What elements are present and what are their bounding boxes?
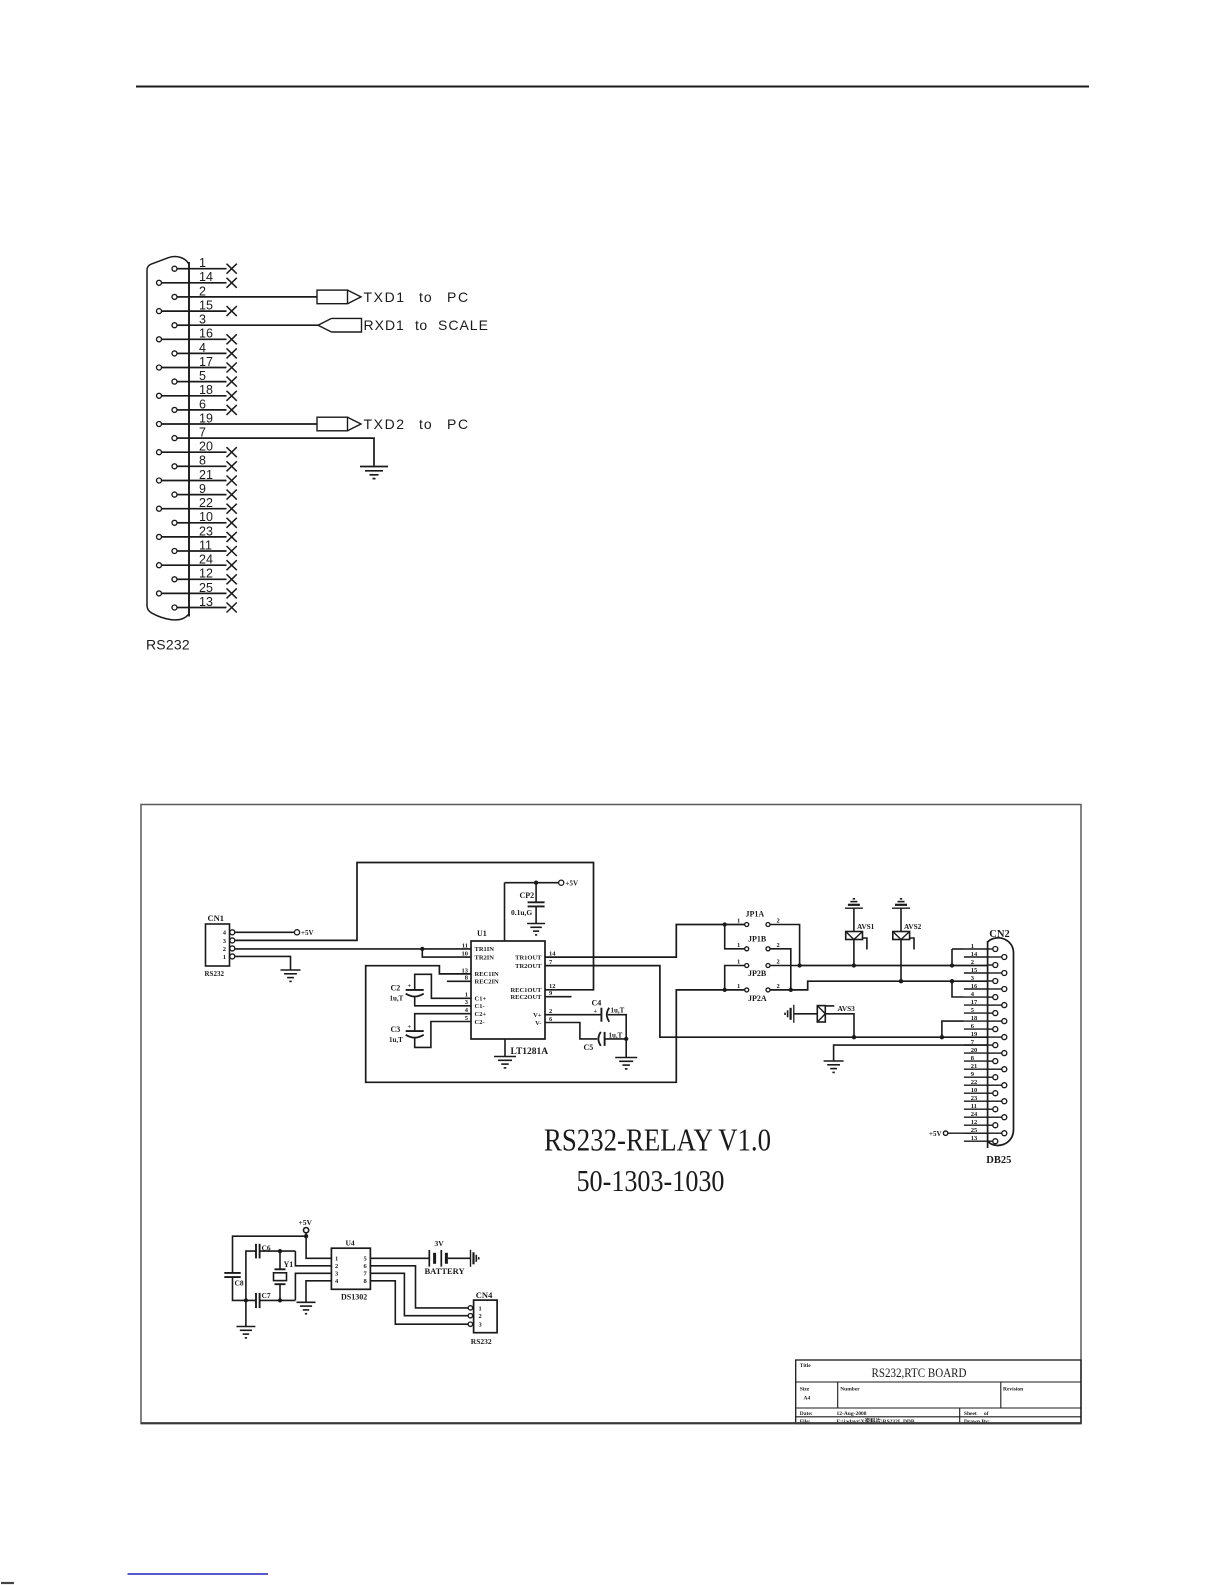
wire U4.4 to ground xyxy=(306,1281,331,1303)
svg-text:Sheet: Sheet xyxy=(964,1411,977,1417)
wire pin 3 to RXD1 port xyxy=(189,324,318,326)
svg-text:AVS3: AVS3 xyxy=(838,1004,856,1013)
wire pin 23 stub xyxy=(189,536,227,538)
svg-text:REC2IN: REC2IN xyxy=(475,979,500,986)
port TXD2 output arrow xyxy=(317,417,348,431)
svg-text:RS232,RTC BOARD: RS232,RTC BOARD xyxy=(872,1366,967,1380)
capacitor C6 xyxy=(255,1244,257,1259)
CN2 pin 12 circle xyxy=(993,1123,998,1128)
CN2 pin 25 circle xyxy=(1002,1131,1007,1136)
CN1 pin 2 xyxy=(230,946,235,951)
svg-text:50-1303-1030: 50-1303-1030 xyxy=(577,1163,725,1198)
svg-text:AVS2: AVS2 xyxy=(904,922,922,931)
wire pin 4 stub xyxy=(189,352,227,354)
capacitor C2 xyxy=(406,989,424,991)
wire node A to U4.2 xyxy=(295,1251,331,1266)
svg-text:+: + xyxy=(594,1008,598,1015)
svg-text:of: of xyxy=(984,1411,989,1417)
wire C2 bottom to C1- xyxy=(415,997,471,1006)
wire +5V to U4.1 xyxy=(306,1233,331,1259)
wire pin 2 to TXD1 port xyxy=(189,296,317,298)
RS232 pin 16 circle and lead xyxy=(157,337,162,342)
svg-text:Title: Title xyxy=(800,1363,811,1369)
CN2 pin 10 circle xyxy=(993,1091,998,1096)
frame bottom emphasis xyxy=(141,1422,1081,1424)
svg-text:11: 11 xyxy=(462,942,468,949)
CN2 pin 21 stub xyxy=(964,1068,988,1070)
CN2 pin 18 circle xyxy=(1002,1019,1007,1024)
wire JP1B.2 down xyxy=(770,949,791,990)
ground (U4.4) xyxy=(297,1301,316,1303)
CN2 pin 23 stub xyxy=(964,1100,988,1102)
port TXD1 output arrow xyxy=(317,290,348,304)
no-connect X pin 15 xyxy=(227,306,237,316)
svg-text:to: to xyxy=(419,289,433,305)
wire AVS1 to bus1 xyxy=(853,940,855,966)
svg-text:LT1281A: LT1281A xyxy=(511,1047,549,1057)
wire C8 to ground node xyxy=(233,1277,257,1300)
svg-text:3: 3 xyxy=(335,1271,339,1278)
CN2 pin 5 stub xyxy=(964,1012,988,1014)
chassis earth (AVS2 top) xyxy=(892,907,910,909)
CN2 pin 10 stub xyxy=(964,1092,988,1094)
CN2 pin 15 stub xyxy=(964,972,988,974)
svg-text:Number: Number xyxy=(840,1387,860,1393)
wire pin 7 to ground xyxy=(189,438,374,466)
CN2 pin 21 circle xyxy=(1002,1067,1007,1072)
connector CN4 body xyxy=(474,1300,498,1333)
ground (CP2) xyxy=(527,923,545,925)
wire branch to TR2IN xyxy=(422,949,471,957)
svg-text:BATTERY: BATTERY xyxy=(425,1266,465,1276)
wire CN2.7 to ground xyxy=(834,1045,988,1061)
CN2 pin 14 stub xyxy=(964,956,988,958)
chassis earth (AVS3 left) xyxy=(793,1005,795,1023)
no-connect X pin 23 xyxy=(227,532,237,542)
CN2 pin 7 circle xyxy=(993,1043,998,1048)
capacitor C5 xyxy=(598,1032,600,1046)
no-connect X pin 10 xyxy=(227,518,237,528)
svg-text:to: to xyxy=(415,317,428,333)
wire pin 8 stub xyxy=(189,465,227,467)
svg-text:RXD1: RXD1 xyxy=(364,317,405,333)
svg-text:REC1IN: REC1IN xyxy=(475,971,500,978)
wire to JP1B.1 xyxy=(725,925,745,949)
CN2 pin 22 stub xyxy=(964,1084,988,1086)
capacitor C4 xyxy=(600,1008,602,1022)
chassis earth (battery) xyxy=(470,1250,472,1267)
wire U1 top to +5V rail xyxy=(504,883,506,941)
CN2 pin 22 circle xyxy=(1002,1083,1007,1088)
svg-text:C2+: C2+ xyxy=(475,1011,487,1018)
CN2 pin 24 stub xyxy=(964,1116,988,1118)
wire C4 to ground rail xyxy=(608,1015,626,1058)
svg-text:TR1OUT: TR1OUT xyxy=(515,954,542,961)
CN2 pin 12 stub xyxy=(964,1124,988,1126)
RS232 pin 4 circle and lead xyxy=(172,351,177,356)
CN1 pin 3 xyxy=(230,938,235,943)
CN2 pin 16 circle xyxy=(1002,987,1007,992)
svg-text:C3: C3 xyxy=(391,1025,401,1034)
svg-text:C5: C5 xyxy=(584,1043,594,1052)
svg-text:RS232: RS232 xyxy=(471,1337,492,1346)
RS232 pin 18 circle and lead xyxy=(157,393,162,398)
wire pin 1 stub xyxy=(189,268,227,270)
CN1 pin 1 xyxy=(230,954,235,959)
wire CN2.1 lead xyxy=(952,948,964,950)
wire C3 bottom to C2- xyxy=(415,1022,471,1048)
wire +5V to C8 xyxy=(233,1236,307,1273)
wire +5V rail xyxy=(505,882,559,884)
wire C7 right to node B xyxy=(260,1299,296,1301)
svg-text:PC: PC xyxy=(447,416,470,432)
chassis earth (AVS1 top) xyxy=(845,907,863,909)
CN2 pin 11 circle xyxy=(993,1107,998,1112)
svg-text:A4: A4 xyxy=(804,1396,811,1402)
CN2 pin 8 stub xyxy=(964,1060,988,1062)
CN2 pin 1 circle xyxy=(993,947,998,952)
top horizontal rule xyxy=(136,86,1089,88)
junction dot CP2 xyxy=(534,881,538,885)
svg-text:2: 2 xyxy=(335,1263,338,1270)
svg-text:1: 1 xyxy=(737,983,740,990)
svg-text:+: + xyxy=(408,982,412,989)
svg-text:U1: U1 xyxy=(477,929,487,938)
wire pin 11 stub xyxy=(189,550,227,552)
wire to JP2B.1 xyxy=(725,966,745,990)
svg-text:TXD2: TXD2 xyxy=(364,416,406,432)
wire V+ to C4 xyxy=(545,1014,601,1016)
svg-text:TR2IN: TR2IN xyxy=(475,954,495,961)
junction dot CN2.3 xyxy=(950,979,954,983)
wire node B to U4.3 xyxy=(295,1273,331,1300)
junction dot C5/gnd xyxy=(624,1037,628,1041)
junction dot CN2.1/2 xyxy=(950,963,954,967)
svg-text:C2-: C2- xyxy=(475,1019,485,1026)
svg-text:1u,T: 1u,T xyxy=(390,994,404,1002)
jumper JP1B pin 1 xyxy=(745,947,749,951)
svg-text:+: + xyxy=(408,1024,412,1031)
surge absorber AVS2 xyxy=(900,908,902,931)
svg-text:2: 2 xyxy=(777,959,780,966)
op-amp U1 LT1281A body xyxy=(471,941,545,1039)
junction dot +5V node xyxy=(304,1234,308,1238)
junction dot AVS2/bus2 xyxy=(899,979,903,983)
no-connect X pin 18 xyxy=(227,391,237,401)
junction dot AVS3/bus3 xyxy=(852,1035,856,1039)
svg-text:19: 19 xyxy=(971,1031,978,1038)
svg-text:1: 1 xyxy=(737,942,740,949)
svg-text:2: 2 xyxy=(777,942,780,949)
RS232 pin 20 circle and lead xyxy=(157,450,162,455)
wire pin 12 stub xyxy=(189,578,227,580)
CN2 pin 20 stub xyxy=(964,1052,988,1054)
RS232 pin 5 circle and lead xyxy=(172,379,177,384)
CN2 pin 15 circle xyxy=(1002,971,1007,976)
svg-text:AVS1: AVS1 xyxy=(857,922,875,931)
jumper JP1B pin 2 xyxy=(766,947,770,951)
surge absorber AVS3 xyxy=(817,1006,825,1022)
svg-text:8: 8 xyxy=(364,1278,368,1285)
svg-text:U4: U4 xyxy=(346,1239,355,1248)
connector CN2 DB25 body xyxy=(988,938,1014,1146)
ground (RS232 pin 7) xyxy=(360,466,388,468)
svg-text:12-Aug-2008: 12-Aug-2008 xyxy=(837,1411,867,1417)
wire pin 21 stub xyxy=(189,480,227,482)
wire CN2.3 to CN2.4 xyxy=(952,981,964,997)
RS232 pin 13 circle and lead xyxy=(172,605,177,610)
capacitor C3 xyxy=(406,1030,424,1032)
no-connect X pin 5 xyxy=(227,377,237,387)
svg-text:SCALE: SCALE xyxy=(438,317,489,333)
no-connect X pin 6 xyxy=(227,405,237,415)
svg-text:1: 1 xyxy=(737,959,740,966)
jumper JP1A pin 1 xyxy=(745,923,749,927)
no-connect X pin 16 xyxy=(227,334,237,344)
wire CN1.2 to TR1IN xyxy=(235,948,472,950)
CN2 pin 14 circle xyxy=(1002,955,1007,960)
wire pin 9 stub xyxy=(189,494,227,496)
connector CN2 spine xyxy=(987,941,989,1148)
RS232 pin 9 circle and lead xyxy=(172,492,177,497)
CN2 pin 9 circle xyxy=(993,1075,998,1080)
svg-text:1: 1 xyxy=(335,1256,338,1263)
svg-text:DB25: DB25 xyxy=(986,1155,1011,1166)
CN2 pin 6 circle xyxy=(993,1027,998,1032)
wire AVS2 to bus2 xyxy=(900,940,902,982)
connector CN1 body xyxy=(206,924,230,966)
svg-text:5: 5 xyxy=(364,1256,368,1263)
svg-text:+5V: +5V xyxy=(566,880,579,888)
CN2 pin 8 circle xyxy=(993,1059,998,1064)
svg-text:6: 6 xyxy=(364,1263,368,1270)
svg-text:to: to xyxy=(419,416,433,432)
svg-text:Date:: Date: xyxy=(800,1411,813,1417)
CN2 pin 5 circle xyxy=(993,1011,998,1016)
junction dot JP2A.1 xyxy=(723,988,727,992)
svg-text:C1+: C1+ xyxy=(475,996,487,1003)
junction dot TR1IN/TR2IN xyxy=(420,947,424,951)
wire TR2OUT bus xyxy=(545,966,988,1038)
svg-text:JP2A: JP2A xyxy=(748,994,767,1003)
wire pin 17 stub xyxy=(189,367,227,369)
CN2 pin 19 circle xyxy=(1002,1035,1007,1040)
RS232 pin 17 circle and lead xyxy=(157,365,162,370)
junction dot bus1 start xyxy=(797,963,801,967)
CN2 pin 3 circle xyxy=(993,979,998,984)
svg-text:3: 3 xyxy=(479,1322,483,1329)
svg-text:CP2: CP2 xyxy=(520,891,535,900)
svg-text:1: 1 xyxy=(737,918,740,925)
no-connect X pin 4 xyxy=(227,348,237,358)
svg-text:JP2B: JP2B xyxy=(748,969,767,978)
svg-text:TXD1: TXD1 xyxy=(364,289,406,305)
wire C1+ loop xyxy=(415,974,471,998)
RS232 pin 10 circle and lead xyxy=(172,520,177,525)
wire bus1 (TXD line) to CN2 pin 2 xyxy=(800,965,988,967)
svg-text:REC2OUT: REC2OUT xyxy=(510,994,542,1001)
svg-text:+5V: +5V xyxy=(299,1218,313,1227)
jumper JP2B pin 2 xyxy=(766,964,770,968)
svg-text:2: 2 xyxy=(971,959,974,966)
svg-text:V-: V- xyxy=(535,1020,541,1027)
CN2 pin 18 stub xyxy=(964,1020,988,1022)
title block outline xyxy=(796,1360,1081,1424)
jumper JP2B pin 1 xyxy=(745,964,749,968)
CN2 pin 4 stub xyxy=(964,996,988,998)
chip U4 DS1302 body xyxy=(331,1248,370,1289)
no-connect X pin 24 xyxy=(227,560,237,570)
jumper JP2A pin 2 xyxy=(766,988,770,992)
RS232 pin 6 circle and lead xyxy=(172,407,177,412)
CN2 pin 1 stub xyxy=(964,948,988,950)
wire pin 16 stub xyxy=(189,338,227,340)
schematic sheet border frame xyxy=(141,805,1081,1424)
connector RS232 spine xyxy=(188,262,190,617)
wire C5 to junction xyxy=(605,1038,627,1040)
CN2 pin 17 circle xyxy=(1002,1003,1007,1008)
RS232 pin 11 circle and lead xyxy=(172,549,177,554)
svg-text:CN1: CN1 xyxy=(208,913,225,923)
svg-text:C4: C4 xyxy=(592,999,602,1008)
capacitor C7 xyxy=(255,1293,257,1308)
junction dot AVS1/bus1 xyxy=(852,963,856,967)
no-connect X pin 14 xyxy=(227,278,237,288)
CN2 pin 24 circle xyxy=(1002,1115,1007,1120)
CN2 pin 25 stub xyxy=(964,1132,988,1134)
RS232 pin 21 circle and lead xyxy=(157,478,162,483)
svg-text:Revision: Revision xyxy=(1003,1387,1023,1393)
RS232 pin 3 circle and lead xyxy=(172,323,177,328)
page footer mark xyxy=(1,1582,14,1584)
CN2 pin 4 circle xyxy=(993,995,998,1000)
svg-text:RS232: RS232 xyxy=(146,636,190,652)
wire C6 right to node A xyxy=(260,1250,296,1252)
CN2 pin 20 circle xyxy=(1002,1051,1007,1056)
junction dot node A xyxy=(278,1249,282,1253)
svg-text:1u,T: 1u,T xyxy=(611,1007,625,1015)
no-connect X pin 13 xyxy=(227,603,237,613)
svg-text:TR1IN: TR1IN xyxy=(475,946,495,953)
svg-text:+5V: +5V xyxy=(301,929,314,937)
svg-text:1u,T: 1u,T xyxy=(389,1036,403,1044)
ground (CN2.7) xyxy=(824,1060,844,1062)
RS232 pin 24 circle and lead xyxy=(157,563,162,568)
port RXD1 input arrow xyxy=(318,318,332,332)
CN2 pin 2 circle xyxy=(993,963,998,968)
svg-text:PC: PC xyxy=(447,289,470,305)
svg-text:C8: C8 xyxy=(235,1278,244,1287)
wire pin 25 stub xyxy=(189,592,227,594)
capacitor CP2 xyxy=(535,883,537,903)
no-connect X pin 11 xyxy=(227,546,237,556)
svg-text:0.1u,G: 0.1u,G xyxy=(511,908,532,917)
svg-text:DS1302: DS1302 xyxy=(341,1292,367,1301)
jumper JP1A pin 2 xyxy=(766,923,770,927)
svg-text:2: 2 xyxy=(479,1313,482,1320)
wire AVS3 to bus3 xyxy=(825,1014,854,1037)
CN2 pin 17 stub xyxy=(964,1004,988,1006)
no-connect X pin 8 xyxy=(227,461,237,471)
CN2 pin 13 circle xyxy=(993,1139,998,1144)
wire pin 10 stub xyxy=(189,522,227,524)
no-connect X pin 1 xyxy=(227,264,237,274)
svg-text:RS232-RELAY V1.0: RS232-RELAY V1.0 xyxy=(544,1122,771,1158)
no-connect X pin 12 xyxy=(227,574,237,584)
svg-text:TR2OUT: TR2OUT xyxy=(515,963,542,970)
wire CN1.1 to ground xyxy=(235,956,291,970)
svg-text:Size: Size xyxy=(800,1387,810,1393)
svg-text:3V: 3V xyxy=(435,1239,445,1248)
svg-text:2: 2 xyxy=(777,918,780,925)
wire pin 22 stub xyxy=(189,508,227,510)
wire pin 13 stub xyxy=(189,607,227,609)
CN2 pin 11 stub xyxy=(964,1108,988,1110)
svg-text:4: 4 xyxy=(335,1278,339,1285)
RS232 pin 7 circle and lead xyxy=(172,436,177,441)
wire CN1.4 to +5V xyxy=(235,931,295,933)
svg-text:3: 3 xyxy=(223,938,227,945)
CN2 pin 23 circle xyxy=(1002,1099,1007,1104)
connector RS232 DB25 body xyxy=(147,257,189,620)
svg-text:V+: V+ xyxy=(533,1012,542,1019)
junction dot CN2 18/19 xyxy=(940,1035,944,1039)
wire CN2.1 to bus1 xyxy=(951,949,953,966)
RS232 pin 2 circle and lead xyxy=(172,294,177,299)
U1 pin 8 REC2IN xyxy=(447,980,471,982)
hyperlink underline (blue) xyxy=(128,1573,269,1575)
ground (CN1) xyxy=(281,969,301,971)
wire U4.6 to CN4.1 xyxy=(370,1266,468,1308)
wire pin 6 stub xyxy=(189,409,227,411)
wire pin 24 stub xyxy=(189,564,227,566)
CN2 pin 7 stub xyxy=(964,1044,988,1046)
svg-text:C7: C7 xyxy=(262,1291,271,1300)
svg-text:10: 10 xyxy=(462,951,469,958)
crystal Y1 xyxy=(279,1251,281,1269)
svg-text:CN4: CN4 xyxy=(476,1290,493,1300)
wire pin 20 stub xyxy=(189,451,227,453)
U1 pin 9 stub xyxy=(545,996,572,998)
RS232 pin 14 circle and lead xyxy=(157,280,162,285)
svg-text:C1-: C1- xyxy=(475,1003,485,1010)
RS232 pin 12 circle and lead xyxy=(172,577,177,582)
wire U4.5 to battery xyxy=(370,1257,429,1259)
svg-text:2: 2 xyxy=(223,946,226,953)
RS232 pin 8 circle and lead xyxy=(172,464,177,469)
wire JP2B.2 to bus1 xyxy=(770,965,800,967)
junction dot JP1A.1 xyxy=(723,922,727,926)
CN2 pin 6 stub xyxy=(964,1028,988,1030)
RS232 pin 25 circle and lead xyxy=(157,591,162,596)
svg-text:RS232: RS232 xyxy=(205,970,225,978)
wire pin 15 stub xyxy=(189,310,227,312)
wire CN2.18 down to bus3 xyxy=(942,1021,964,1037)
svg-text:1: 1 xyxy=(223,954,226,961)
svg-text:JP1B: JP1B xyxy=(748,934,767,943)
svg-text:1: 1 xyxy=(479,1305,482,1312)
wire C6 left down to ground node xyxy=(246,1251,256,1300)
no-connect X pin 25 xyxy=(227,588,237,598)
no-connect X pin 20 xyxy=(227,447,237,457)
no-connect X pin 9 xyxy=(227,490,237,500)
title block column lines xyxy=(837,1382,839,1408)
RS232 pin 1 circle and lead xyxy=(172,266,177,271)
wire U4.7 to CN4.2 xyxy=(370,1273,468,1315)
power +5V (CN1) xyxy=(294,930,299,935)
svg-text:C2: C2 xyxy=(391,983,401,992)
wire battery to earth xyxy=(448,1257,471,1259)
